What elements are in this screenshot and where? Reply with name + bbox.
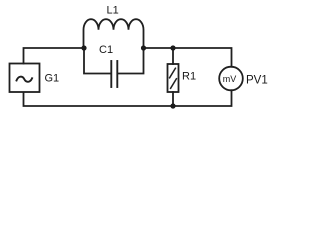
svg-text:PV1: PV1: [246, 75, 268, 87]
svg-text:C1: C1: [99, 44, 113, 56]
svg-text:R1: R1: [182, 71, 196, 83]
svg-text:L1: L1: [107, 5, 119, 17]
svg-text:mV: mV: [223, 74, 237, 84]
svg-text:G1: G1: [45, 73, 60, 85]
